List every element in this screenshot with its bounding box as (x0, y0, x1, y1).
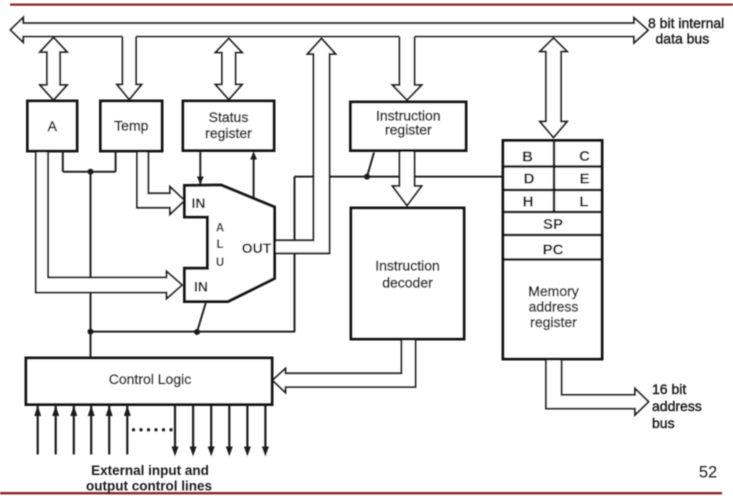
svg-text:bus: bus (652, 415, 675, 431)
svg-text:Memory: Memory (528, 283, 579, 299)
svg-text:register: register (530, 314, 577, 330)
svg-text:address: address (529, 298, 579, 314)
svg-text:output control lines: output control lines (86, 479, 212, 494)
svg-text:D: D (524, 171, 535, 188)
svg-text:decoder: decoder (382, 275, 433, 291)
svg-text:register: register (385, 122, 432, 138)
svg-text:H: H (523, 194, 534, 211)
svg-text:8 bit internal: 8 bit internal (648, 15, 724, 31)
svg-text:Status: Status (209, 109, 249, 125)
svg-text:C: C (579, 148, 590, 165)
svg-text:E: E (579, 171, 589, 188)
svg-text:52: 52 (699, 464, 717, 482)
svg-text:data bus: data bus (656, 30, 710, 46)
svg-text:A: A (48, 118, 58, 134)
svg-text:U: U (216, 257, 224, 269)
svg-text:Instruction: Instruction (375, 258, 440, 274)
svg-text:IN: IN (194, 279, 208, 295)
svg-text:PC: PC (543, 242, 564, 259)
svg-text:IN: IN (192, 195, 206, 211)
svg-text:B: B (522, 149, 533, 166)
svg-text:16 bit: 16 bit (652, 381, 686, 397)
svg-text:OUT: OUT (242, 240, 272, 256)
svg-text:Control Logic: Control Logic (109, 371, 192, 387)
svg-text:address: address (652, 398, 702, 414)
svg-text:register: register (205, 125, 252, 141)
svg-text:L: L (579, 194, 588, 211)
svg-text:SP: SP (543, 216, 563, 233)
svg-text:A: A (216, 223, 224, 235)
svg-text:Temp: Temp (114, 118, 148, 134)
svg-text:External input and: External input and (91, 463, 209, 478)
svg-text:L: L (216, 239, 223, 251)
